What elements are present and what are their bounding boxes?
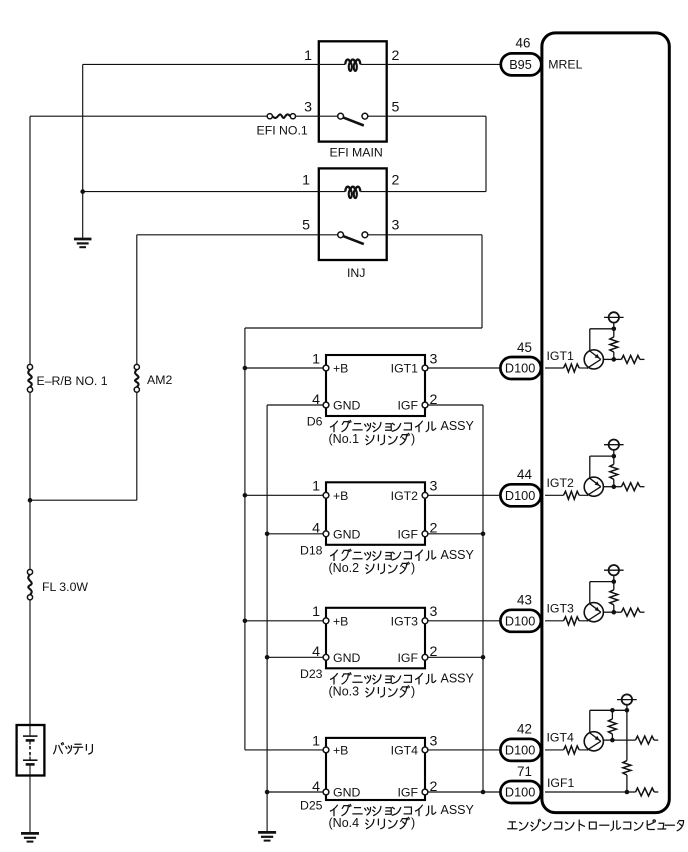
pin 2 (IGF) coil 1 — [422, 402, 428, 408]
svg-text:(No.4: (No.4 — [329, 816, 360, 830]
wire: +B feed coil 2 — [245, 494, 323, 496]
transistor Q2 — [584, 477, 603, 496]
connector D100 pin 43 (IGT3) — [500, 610, 541, 632]
svg-text:GND: GND — [333, 527, 360, 541]
svg-text:D25: D25 — [300, 799, 323, 813]
junction: IGF bus — [481, 655, 486, 660]
resistor pull (vertical) IGT2 — [613, 456, 615, 464]
node: emitter junction — [612, 484, 617, 489]
svg-text:ASSY: ASSY — [441, 672, 475, 686]
wire: emitter to node — [603, 739, 612, 741]
svg-text:5: 5 — [392, 100, 400, 116]
junction: IGF bus — [481, 532, 486, 537]
power supply symbol IGT4 — [626, 705, 628, 711]
wire: INJ pin 3 right — [387, 234, 482, 236]
svg-text:D6: D6 — [307, 415, 323, 429]
svg-text:45: 45 — [517, 340, 532, 355]
svg-text:IGT1: IGT1 — [391, 362, 418, 376]
connector D100 pin 71 (IGF1) — [500, 781, 541, 803]
node: IGF junction — [625, 790, 630, 795]
svg-text:ASSY: ASSY — [441, 803, 475, 817]
resistor pull (vertical) IGT1 — [613, 329, 615, 337]
wire: INJ contact right — [368, 234, 387, 236]
wire: relay coil left — [319, 63, 345, 65]
svg-text:3: 3 — [430, 733, 438, 749]
resistor base IGT4 — [564, 746, 580, 754]
pin 1 (+B) coil 2 — [323, 492, 329, 498]
wire: IGT2 into ECU — [545, 494, 564, 496]
resistor IGF1 — [627, 791, 636, 793]
node: emitter junction — [610, 738, 615, 743]
wire: +B feed coil 1 — [245, 367, 323, 369]
wire: IGF bus vertical — [482, 405, 484, 792]
ground (coils) — [258, 831, 276, 834]
svg-text:3: 3 — [430, 351, 438, 367]
svg-text:IGT4: IGT4 — [547, 731, 574, 745]
caption イグニッションコイルASSY No.2 — [331, 549, 436, 560]
node: top junction — [612, 327, 617, 332]
wire: +B bus vertical — [244, 328, 246, 750]
wire: IGF coil 2 — [428, 533, 483, 535]
wire: +B feed coil 3 — [245, 620, 323, 622]
svg-text:IGT2: IGT2 — [547, 476, 574, 490]
svg-text:FL 3.0W: FL 3.0W — [42, 580, 88, 594]
wire: GND coil 3 — [267, 656, 323, 658]
svg-text:IGT4: IGT4 — [391, 744, 418, 758]
pin 2 (IGF) coil 4 — [422, 789, 428, 795]
svg-text:+B: +B — [333, 362, 348, 376]
wire: IGF coil 4 — [428, 791, 483, 793]
svg-text:IGF: IGF — [398, 527, 419, 541]
wire: relay contact left — [319, 115, 338, 117]
svg-text:MREL: MREL — [548, 57, 582, 71]
resistor base IGT1 — [564, 364, 580, 372]
wire: EFI MAIN pin 1 to ground branch — [83, 63, 319, 65]
svg-text:IGF: IGF — [398, 786, 419, 800]
svg-text:(No.2: (No.2 — [329, 561, 360, 575]
junction: GND bus — [265, 532, 270, 537]
svg-text:D23: D23 — [300, 667, 323, 681]
wire: AM2 join horizontal — [30, 499, 137, 501]
svg-text:(No.3: (No.3 — [329, 685, 360, 699]
wire: left bus vertical upper — [29, 116, 31, 364]
svg-text:1: 1 — [312, 351, 320, 367]
wire: emitter to node — [603, 486, 613, 488]
relay EFI MAIN — [319, 41, 387, 141]
wire: GND coil 1 — [267, 404, 323, 406]
wire: IGT1 to ECU — [428, 367, 501, 369]
wire: IGT3 to ECU — [428, 620, 501, 622]
transistor Q1 — [584, 350, 603, 369]
svg-text:2: 2 — [392, 48, 400, 64]
resistor pull (vertical) IGT4 — [611, 710, 613, 719]
wire: INJ coil left — [319, 191, 345, 193]
power supply symbol IGT3 — [613, 575, 615, 581]
transistor Q3 — [584, 603, 603, 622]
wire: EFI MAIN pin 5 right — [387, 115, 486, 117]
connector D100 pin 44 (IGT2) — [500, 484, 541, 506]
svg-text:46: 46 — [516, 36, 531, 51]
wire: pin5-to-INJ vertical — [485, 116, 487, 191]
battery バッテリ — [17, 725, 45, 776]
junction: +B bus — [243, 366, 248, 371]
wire: IGF coil 3 — [428, 656, 483, 658]
junction: +B bus — [243, 493, 248, 498]
pin 3 (IGT2) coil 2 — [422, 492, 428, 498]
svg-text:3: 3 — [392, 217, 400, 233]
wire: IGF1 into ECU — [545, 791, 627, 793]
ECU エンジンコントロールコンピュータ box — [542, 33, 669, 813]
svg-text:IGF: IGF — [398, 651, 419, 665]
power supply symbol IGT1 — [613, 323, 615, 329]
junction: AM2 / battery bus — [28, 498, 33, 503]
wire: GND coil 2 — [267, 533, 323, 535]
svg-text:1: 1 — [312, 604, 320, 620]
wire: to battery — [29, 600, 31, 725]
svg-text:D100: D100 — [505, 744, 535, 758]
power supply symbol IGT2 — [613, 450, 615, 456]
ignition coil assy D25 (No.4) — [326, 738, 425, 800]
wire: INJ coil right — [360, 191, 386, 193]
svg-text:D100: D100 — [505, 786, 535, 800]
resistor pull (vertical) IGT3 — [613, 582, 615, 590]
caption イグニッションコイルASSY No.3 — [331, 673, 436, 684]
wire: relay contact right — [368, 115, 387, 117]
svg-text:5: 5 — [302, 217, 310, 233]
pin 4 (GND) coil 3 — [323, 654, 329, 660]
svg-text:IGF1: IGF1 — [547, 776, 574, 790]
resistor base IGT3 — [564, 617, 580, 625]
wire: IGT1 into ECU — [545, 367, 564, 369]
svg-text:43: 43 — [517, 593, 532, 608]
node: top junction right — [625, 708, 630, 713]
wire: IGT4 into ECU — [545, 749, 564, 751]
svg-text:1: 1 — [312, 479, 320, 495]
svg-text:3: 3 — [304, 100, 312, 116]
ignition coil assy D23 (No.3) — [326, 608, 425, 669]
wire: IGF coil 1 — [428, 404, 483, 406]
label エンジンコントロールコンピュータ — [508, 819, 684, 830]
wire: GND bus vertical — [266, 405, 268, 831]
pin 4 (GND) coil 2 — [323, 531, 329, 537]
svg-text:GND: GND — [333, 399, 360, 413]
svg-text:): ) — [411, 561, 415, 575]
svg-text:1: 1 — [302, 173, 310, 189]
pin 3 (IGT1) coil 1 — [422, 365, 428, 371]
wire: relay coil right — [360, 63, 386, 65]
resistor output IGT4 — [612, 739, 635, 741]
wire: ground branch vertical — [82, 64, 84, 238]
resistor output IGT2 — [614, 486, 622, 488]
wire: junction to INJ pin 1 — [83, 191, 319, 193]
pin 3 (IGT4) coil 4 — [422, 747, 428, 753]
pin 2 (IGF) coil 3 — [422, 654, 428, 660]
svg-text:IGT2: IGT2 — [391, 489, 418, 503]
wire: left bus mid — [29, 392, 31, 569]
svg-text:E–R/B NO. 1: E–R/B NO. 1 — [37, 374, 108, 388]
wire: IGT3 into ECU — [545, 620, 564, 622]
svg-text:+B: +B — [333, 744, 348, 758]
svg-text:3: 3 — [430, 479, 438, 495]
connector B95 pin 46 (MREL) — [501, 53, 542, 75]
node: emitter junction — [612, 610, 617, 615]
svg-text:D100: D100 — [505, 614, 535, 628]
wire: IGF sense branch — [626, 710, 628, 760]
svg-text:D100: D100 — [505, 362, 535, 376]
svg-text:1: 1 — [304, 48, 312, 64]
wire: IGT4 to ECU — [428, 749, 501, 751]
relay INJ — [319, 168, 387, 260]
wire: to INJ pin 2 — [387, 191, 486, 193]
svg-text:): ) — [411, 432, 415, 446]
ground (battery) — [21, 832, 39, 835]
connector D100 pin 45 (IGT1) — [500, 357, 541, 379]
wire: battery bus to EFI NO.1 fuse — [30, 115, 269, 117]
svg-text:1: 1 — [312, 733, 320, 749]
fuse FL 3.0W — [28, 575, 31, 595]
caption イグニッションコイルASSY No.4 — [331, 805, 436, 816]
wire: INJ pin3 vertical — [481, 235, 483, 328]
svg-text:+B: +B — [333, 489, 348, 503]
connector D100 pin 42 (IGT4) — [500, 739, 541, 761]
wire: +B feed horizontal — [245, 327, 482, 329]
svg-text:(No.1: (No.1 — [329, 432, 360, 446]
resistor IGF branch — [623, 761, 631, 775]
fuse EFI NO.1 — [272, 114, 290, 117]
svg-text:IGF: IGF — [398, 399, 419, 413]
node: top junction left — [610, 708, 615, 713]
svg-text:ASSY: ASSY — [441, 548, 475, 562]
svg-text:3: 3 — [430, 604, 438, 620]
relay switch contact EFI MAIN — [338, 113, 344, 119]
resistor output IGT3 — [614, 611, 622, 613]
svg-text:AM2: AM2 — [147, 373, 172, 387]
resistor output IGT1 — [614, 358, 622, 360]
wire: collector to top node — [590, 581, 614, 583]
svg-text:IGT3: IGT3 — [391, 614, 418, 628]
junction: GND bus — [265, 655, 270, 660]
relay switch contact INJ — [338, 232, 344, 238]
node: emitter junction — [612, 357, 617, 362]
svg-text:D100: D100 — [505, 489, 535, 503]
svg-text:): ) — [411, 685, 415, 699]
svg-text:B95: B95 — [509, 58, 532, 72]
svg-text:): ) — [411, 816, 415, 830]
svg-text:ASSY: ASSY — [441, 419, 475, 433]
wire: EFI MAIN pin 2 to MREL B95 — [387, 63, 501, 65]
pin 1 (+B) coil 3 — [323, 618, 329, 624]
svg-text:EFI MAIN: EFI MAIN — [330, 145, 383, 159]
wire: INJ pin 5 to AM2 — [137, 234, 319, 236]
svg-text:GND: GND — [333, 651, 360, 665]
wire: INJ contact left — [319, 234, 338, 236]
svg-text:44: 44 — [517, 467, 532, 482]
svg-text:IGT1: IGT1 — [547, 349, 574, 363]
svg-text:D18: D18 — [300, 543, 323, 557]
wire: IGT2 to ECU — [428, 494, 501, 496]
wire: EFI NO.1 fuse to EFI MAIN pin 3 — [296, 115, 319, 117]
svg-text:IGT3: IGT3 — [547, 602, 574, 616]
wire: GND coil 4 — [267, 791, 323, 793]
junction: ground branch / INJ pin 1 — [80, 189, 85, 194]
svg-text:42: 42 — [517, 722, 532, 737]
resistor base IGT2 — [564, 491, 580, 499]
svg-text:71: 71 — [517, 764, 532, 779]
wire: +B feed coil 4 — [245, 749, 323, 751]
ground (relay coils) — [74, 238, 92, 241]
fuse AM2 — [135, 370, 138, 387]
svg-text:INJ: INJ — [347, 266, 365, 280]
svg-text:GND: GND — [333, 786, 360, 800]
caption イグニッションコイルASSY No.1 — [331, 421, 436, 432]
label バッテリ — [54, 743, 93, 754]
wire: emitter to node — [603, 358, 613, 360]
junction: IGF bus — [481, 790, 486, 795]
transistor Q4 — [584, 732, 603, 751]
relay coil (inductor) EFI MAIN — [345, 60, 350, 65]
wire: collector to top node — [590, 328, 614, 330]
wire: IGF to connector 71 — [483, 791, 500, 793]
wire: collector top rail — [590, 709, 627, 711]
wire: collector to top node — [590, 455, 614, 457]
wire: emitter to node — [603, 611, 613, 613]
pin 2 (IGF) coil 2 — [422, 531, 428, 537]
wire: AM2 vertical upper — [136, 235, 138, 365]
pin 1 (+B) coil 4 — [323, 747, 329, 753]
svg-text:+B: +B — [333, 614, 348, 628]
pin 3 (IGT3) coil 3 — [422, 618, 428, 624]
pin 4 (GND) coil 4 — [323, 789, 329, 795]
fuse E-R/B NO. 1 — [28, 370, 31, 387]
relay coil (inductor) INJ — [345, 187, 350, 192]
wire: AM2 lower vertical — [136, 392, 138, 500]
ignition coil assy D18 (No.2) — [326, 482, 425, 545]
junction: +B bus — [243, 619, 248, 624]
ignition coil assy D6 (No.1) — [326, 355, 425, 416]
node: top junction — [612, 454, 617, 459]
wire: battery to ground — [29, 765, 31, 833]
junction: GND bus — [265, 790, 270, 795]
node: top junction — [612, 579, 617, 584]
svg-text:2: 2 — [392, 173, 400, 189]
svg-text:EFI NO.1: EFI NO.1 — [257, 124, 308, 138]
pin 4 (GND) coil 1 — [323, 402, 329, 408]
pin 1 (+B) coil 1 — [323, 365, 329, 371]
